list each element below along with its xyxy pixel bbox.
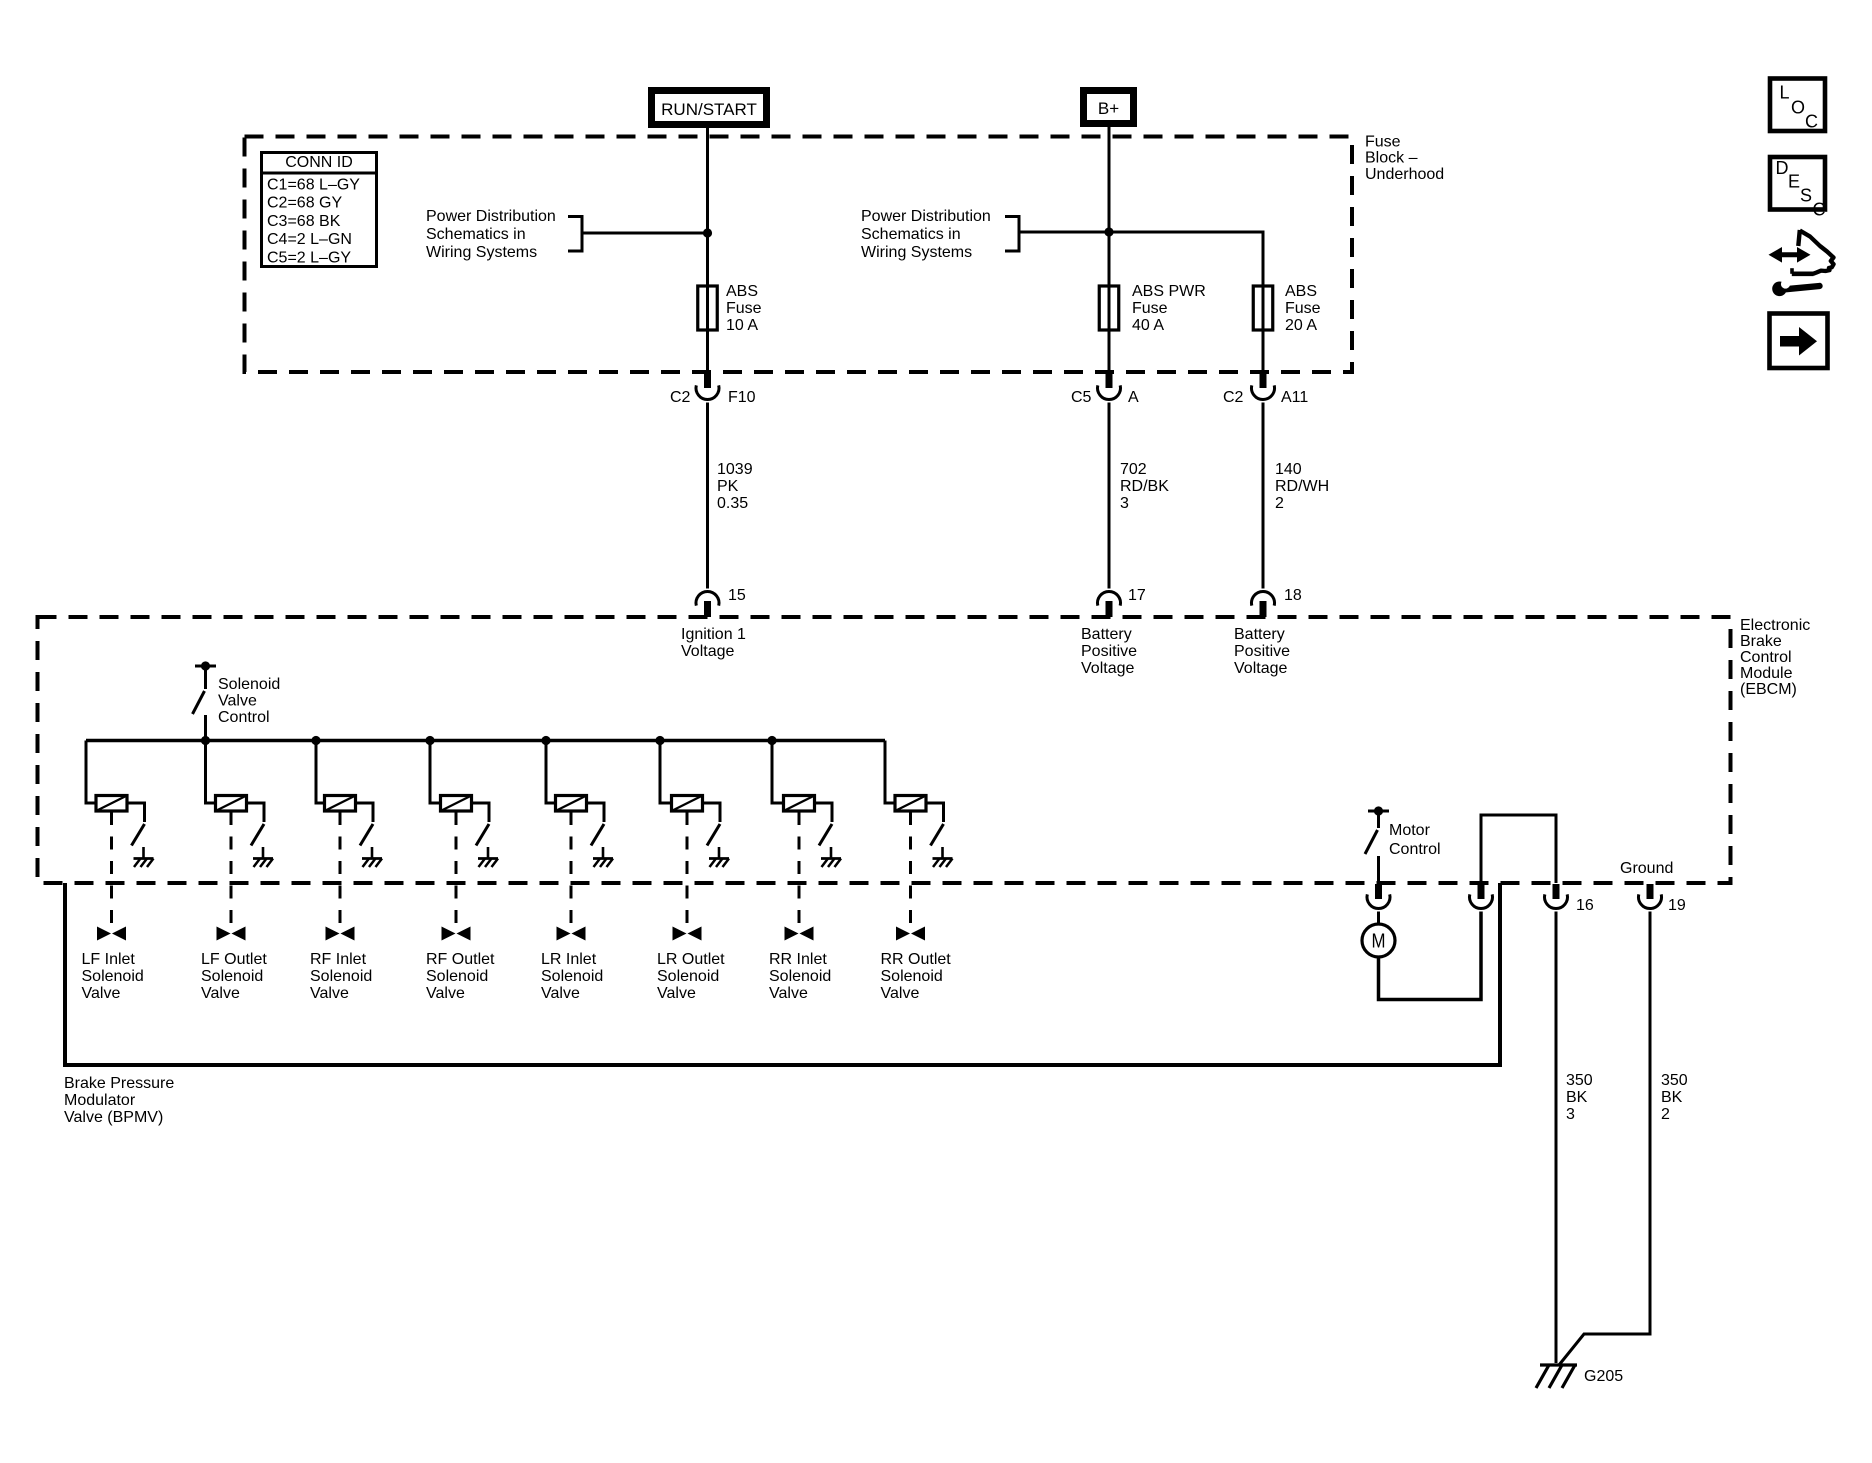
svg-text:C2=68 GY: C2=68 GY	[267, 195, 342, 212]
motor M	[1362, 924, 1395, 957]
label Power Distribution Schematics in Wiring Systems (left)	[426, 208, 556, 261]
svg-text:Positive: Positive	[1234, 643, 1290, 660]
wire from right reference across B+ feed to ABS fuse 20A	[1019, 232, 1263, 286]
icon vehicle data link (car with double arrow and wrench)	[1769, 230, 1834, 296]
label Fuse Block - Underhood	[1365, 134, 1444, 184]
wire coil to driver switch (LR Outlet)	[703, 803, 721, 822]
svg-text:A11: A11	[1281, 389, 1308, 406]
dashed actuation link to RR Inlet valve	[798, 812, 801, 926]
solenoid valve control switch	[193, 666, 206, 740]
driver switch (RF Outlet)	[476, 824, 489, 858]
label ABS Fuse 10 A	[726, 283, 762, 334]
wire bus to RR Outlet solenoid coil	[885, 741, 895, 804]
label LR Inlet Solenoid Valve	[541, 951, 603, 1002]
junction bus to RF Outlet branch	[425, 736, 434, 745]
svg-text:Solenoid: Solenoid	[541, 968, 603, 985]
dashed actuation link to LF Inlet valve	[110, 812, 113, 926]
label RR Outlet Solenoid Valve	[881, 951, 952, 1002]
svg-text:(EBCM): (EBCM)	[1740, 681, 1797, 698]
label 350 BK 2	[1661, 1072, 1688, 1123]
wire 702 RD/BK 3	[1108, 403, 1111, 589]
dashed actuation link to LR Inlet valve	[570, 812, 573, 926]
svg-text:Valve: Valve	[82, 985, 121, 1002]
svg-text:Power Distribution: Power Distribution	[861, 208, 991, 225]
svg-text:Solenoid: Solenoid	[310, 968, 372, 985]
wire fuse 40A to connector C5 A	[1108, 330, 1111, 372]
svg-text:S: S	[1800, 186, 1812, 206]
svg-text:Valve: Valve	[881, 985, 920, 1002]
driver switch (LF Outlet)	[251, 824, 264, 858]
svg-text:LR Inlet: LR Inlet	[541, 951, 597, 968]
driver switch (RF Inlet)	[360, 824, 373, 858]
svg-text:BK: BK	[1566, 1089, 1588, 1106]
CONN ID table	[260, 153, 378, 267]
svg-text:Fuse: Fuse	[1285, 300, 1321, 317]
svg-text:Valve: Valve	[541, 985, 580, 1002]
svg-text:M: M	[1372, 931, 1386, 953]
svg-text:G205: G205	[1584, 1368, 1623, 1385]
wire fuse 20A to connector C2 A11	[1262, 330, 1265, 372]
svg-text:16: 16	[1576, 897, 1594, 914]
label 702 RD/BK 3	[1120, 461, 1169, 512]
svg-text:C5: C5	[1071, 389, 1092, 406]
label Solenoid Valve Control	[218, 676, 280, 726]
label Power Distribution Schematics in Wiring Systems (right)	[861, 208, 991, 261]
svg-text:17: 17	[1128, 587, 1146, 604]
svg-text:RD/BK: RD/BK	[1120, 478, 1169, 495]
node RUN/START	[652, 91, 767, 125]
ground G205	[1536, 1365, 1577, 1388]
ground (driver RR Inlet)	[821, 859, 841, 868]
valve LF Inlet solenoid valve	[97, 927, 126, 941]
label Motor Control	[1389, 822, 1441, 858]
junction bus to RF Inlet branch	[311, 736, 320, 745]
svg-text:C1=68 L–GY: C1=68 L–GY	[267, 177, 360, 194]
label Battery Positive Voltage (pin 17)	[1081, 626, 1137, 677]
svg-text:Voltage: Voltage	[1081, 660, 1134, 677]
svg-text:40 A: 40 A	[1132, 317, 1164, 334]
motor control switch	[1365, 811, 1379, 883]
wire bus to RF Inlet solenoid coil	[316, 741, 325, 804]
solenoid valve control supply tap	[195, 661, 216, 670]
svg-text:350: 350	[1661, 1072, 1688, 1089]
svg-text:D: D	[1776, 158, 1789, 178]
svg-text:Solenoid: Solenoid	[426, 968, 488, 985]
label ABS PWR Fuse 40 A	[1132, 283, 1206, 334]
svg-text:Block –: Block –	[1365, 150, 1418, 167]
svg-text:Underhood: Underhood	[1365, 166, 1444, 183]
svg-text:Valve: Valve	[310, 985, 349, 1002]
wire coil to driver switch (RR Outlet)	[926, 803, 944, 822]
driver switch (LR Inlet)	[591, 824, 604, 858]
svg-text:RF Inlet: RF Inlet	[310, 951, 367, 968]
driver switch (LF Inlet)	[132, 824, 145, 858]
svg-text:ABS: ABS	[726, 283, 758, 300]
svg-text:Fuse: Fuse	[1365, 134, 1401, 151]
svg-text:10 A: 10 A	[726, 317, 758, 334]
ground (driver LF Outlet)	[253, 859, 273, 868]
motor return connector at module bottom	[1470, 884, 1493, 909]
wire bus to LR Inlet solenoid coil	[546, 741, 556, 804]
svg-text:Control: Control	[218, 709, 270, 726]
wire 350 BK 2 from pin 19 to G205	[1559, 912, 1650, 1366]
driver switch (LR Outlet)	[707, 824, 720, 858]
wire connector to motor	[1377, 912, 1380, 925]
svg-text:Brake: Brake	[1740, 633, 1782, 650]
svg-text:RR Inlet: RR Inlet	[769, 951, 827, 968]
svg-text:Voltage: Voltage	[1234, 660, 1287, 677]
svg-text:Solenoid: Solenoid	[769, 968, 831, 985]
svg-text:Wiring Systems: Wiring Systems	[426, 244, 537, 261]
wire RUN/START down to ABS fuse	[706, 128, 709, 286]
label RF Outlet Solenoid Valve	[426, 951, 495, 1002]
label Battery Positive Voltage (pin 18)	[1234, 626, 1290, 677]
svg-text:C3=68 BK: C3=68 BK	[267, 213, 341, 230]
pin 19 connector	[1639, 884, 1662, 909]
svg-text:Valve: Valve	[201, 985, 240, 1002]
svg-text:L: L	[1780, 83, 1790, 103]
wire fuse 10A to connector C2 F10	[706, 330, 709, 372]
svg-text:Control: Control	[1389, 841, 1441, 858]
dashed actuation link to RR Outlet valve	[909, 812, 912, 926]
svg-text:O: O	[1791, 98, 1805, 118]
svg-text:2: 2	[1275, 495, 1284, 512]
svg-text:Valve: Valve	[218, 693, 257, 710]
valve RR Inlet solenoid valve	[785, 927, 814, 941]
svg-text:ABS: ABS	[1285, 283, 1317, 300]
svg-text:3: 3	[1120, 495, 1129, 512]
label ABS Fuse 20 A	[1285, 283, 1321, 334]
wire inside module from motor return to pin 16	[1481, 815, 1556, 883]
driver switch (RR Inlet)	[819, 824, 832, 858]
svg-text:B+: B+	[1098, 99, 1119, 118]
svg-text:CONN ID: CONN ID	[285, 154, 353, 171]
wire coil to driver switch (RF Inlet)	[356, 803, 374, 822]
wire bus to RR Inlet solenoid coil	[772, 741, 784, 804]
icon LOC box	[1770, 79, 1825, 132]
svg-text:Valve: Valve	[769, 985, 808, 1002]
bracket for right power distribution reference	[1005, 217, 1019, 252]
fuse block underhood dashed enclosure	[245, 137, 1353, 373]
icon forward arrow box	[1770, 314, 1828, 369]
svg-text:C2: C2	[670, 389, 691, 406]
label Electronic Brake Control Module (EBCM)	[1740, 617, 1810, 698]
svg-text:Motor: Motor	[1389, 822, 1431, 839]
solenoid coil RF Outlet	[441, 796, 472, 812]
label RR Inlet Solenoid Valve	[769, 951, 831, 1002]
wire motor return loop	[1379, 912, 1482, 1000]
valve LF Outlet solenoid valve	[217, 927, 246, 941]
svg-text:Schematics in: Schematics in	[426, 226, 526, 243]
solenoid coil RR Outlet	[895, 796, 926, 812]
solenoid coil RR Inlet	[784, 796, 815, 812]
svg-text:LF Inlet: LF Inlet	[82, 951, 136, 968]
svg-text:Fuse: Fuse	[726, 300, 762, 317]
fuse ABS 20 A	[1253, 286, 1273, 330]
junction bus to RR Inlet branch	[767, 736, 776, 745]
svg-text:Fuse: Fuse	[1132, 300, 1168, 317]
ground (driver RF Outlet)	[478, 859, 498, 868]
svg-text:702: 702	[1120, 461, 1147, 478]
fuse ABS 10 A	[698, 286, 718, 330]
svg-text:A: A	[1128, 389, 1139, 406]
dashed actuation link to RF Outlet valve	[455, 812, 458, 926]
icon DESC box	[1770, 157, 1826, 220]
svg-text:Modulator: Modulator	[64, 1092, 136, 1109]
svg-text:C5=2 L–GY: C5=2 L–GY	[267, 250, 351, 267]
junction on B+ feed	[1104, 227, 1113, 236]
junction bus to LR Outlet branch	[655, 736, 664, 745]
pin 18 connector	[1252, 591, 1275, 617]
svg-text:C: C	[1813, 200, 1826, 220]
wire from left reference to RUN/START feed	[582, 232, 708, 235]
dashed actuation link to RF Inlet valve	[339, 812, 342, 926]
dashed actuation link to LR Outlet valve	[686, 812, 689, 926]
svg-text:350: 350	[1566, 1072, 1593, 1089]
connector C2 pin F10	[696, 372, 719, 400]
solenoid supply bus wire	[86, 739, 885, 743]
svg-text:Valve: Valve	[426, 985, 465, 1002]
svg-text:RD/WH: RD/WH	[1275, 478, 1329, 495]
svg-text:Solenoid: Solenoid	[657, 968, 719, 985]
node B+	[1084, 91, 1134, 124]
wire 140 RD/WH 2	[1262, 403, 1265, 589]
wire coil to driver switch (LF Inlet)	[127, 803, 145, 822]
svg-text:3: 3	[1566, 1106, 1575, 1123]
solenoid coil LR Inlet	[556, 796, 587, 812]
svg-text:BK: BK	[1661, 1089, 1683, 1106]
svg-text:Positive: Positive	[1081, 643, 1137, 660]
label 350 BK 3	[1566, 1072, 1593, 1123]
svg-text:F10: F10	[728, 389, 756, 406]
svg-text:0.35: 0.35	[717, 495, 748, 512]
fuse ABS PWR 40 A	[1099, 286, 1119, 330]
connector C2 pin A11	[1252, 372, 1275, 400]
solenoid coil LF Inlet	[96, 796, 127, 812]
valve RF Inlet solenoid valve	[326, 927, 355, 941]
svg-text:RF Outlet: RF Outlet	[426, 951, 495, 968]
svg-text:Module: Module	[1740, 665, 1793, 682]
pin 17 connector	[1098, 591, 1121, 617]
label 1039 PK 0.35	[717, 461, 753, 512]
svg-text:C2: C2	[1223, 389, 1244, 406]
wire B+ down to ABS PWR fuse	[1108, 127, 1111, 286]
svg-text:Valve: Valve	[657, 985, 696, 1002]
ground (driver RF Inlet)	[362, 859, 382, 868]
svg-text:Schematics in: Schematics in	[861, 226, 961, 243]
wire coil to driver switch (RF Outlet)	[472, 803, 490, 822]
svg-text:RR Outlet: RR Outlet	[881, 951, 952, 968]
svg-text:PK: PK	[717, 478, 739, 495]
ground (driver LR Inlet)	[593, 859, 613, 868]
svg-text:Ignition 1: Ignition 1	[681, 626, 746, 643]
driver switch (RR Outlet)	[931, 824, 944, 858]
wire bus to LF Inlet solenoid coil	[86, 741, 96, 804]
wire 1039 PK 0.35	[706, 403, 709, 589]
svg-text:Control: Control	[1740, 649, 1792, 666]
svg-text:Power Distribution: Power Distribution	[426, 208, 556, 225]
svg-text:Battery: Battery	[1081, 626, 1132, 643]
svg-text:Solenoid: Solenoid	[218, 676, 280, 693]
svg-text:C: C	[1805, 112, 1818, 132]
wire coil to driver switch (LR Inlet)	[587, 803, 605, 822]
wire bus to LF Outlet solenoid coil	[206, 741, 216, 804]
valve LR Outlet solenoid valve	[673, 927, 702, 941]
ground (driver RR Outlet)	[933, 859, 953, 868]
svg-text:20 A: 20 A	[1285, 317, 1317, 334]
wire bus to RF Outlet solenoid coil	[430, 741, 441, 804]
svg-text:Solenoid: Solenoid	[881, 968, 943, 985]
motor supply connector at module bottom	[1367, 884, 1390, 909]
junction on RUN/START feed	[703, 228, 712, 237]
junction bus to LF Outlet branch	[201, 736, 210, 745]
valve RR Outlet solenoid valve	[896, 927, 925, 941]
label 140 RD/WH 2	[1275, 461, 1329, 512]
label Ignition 1 Voltage	[681, 626, 746, 660]
svg-text:Valve (BPMV): Valve (BPMV)	[64, 1109, 163, 1126]
valve LR Inlet solenoid valve	[557, 927, 586, 941]
svg-text:ABS PWR: ABS PWR	[1132, 283, 1206, 300]
wire 350 BK 3 from pin 16 to G205	[1555, 912, 1558, 1364]
wire coil to driver switch (LF Outlet)	[247, 803, 265, 822]
label LF Outlet Solenoid Valve	[201, 951, 267, 1002]
svg-text:1039: 1039	[717, 461, 753, 478]
label LR Outlet Solenoid Valve	[657, 951, 725, 1002]
svg-text:RUN/START: RUN/START	[661, 100, 757, 119]
wire coil to driver switch (RR Inlet)	[815, 803, 833, 822]
svg-text:18: 18	[1284, 587, 1302, 604]
junction bus to LR Inlet branch	[541, 736, 550, 745]
svg-text:E: E	[1788, 172, 1800, 192]
svg-text:LR Outlet: LR Outlet	[657, 951, 725, 968]
ground (driver LF Inlet)	[134, 859, 154, 868]
label LF Inlet Solenoid Valve	[82, 951, 144, 1002]
dashed actuation link to LF Outlet valve	[230, 812, 233, 926]
wire bus to LR Outlet solenoid coil	[660, 741, 672, 804]
solenoid coil LR Outlet	[672, 796, 703, 812]
svg-text:2: 2	[1661, 1106, 1670, 1123]
svg-text:Solenoid: Solenoid	[82, 968, 144, 985]
svg-text:Wiring Systems: Wiring Systems	[861, 244, 972, 261]
svg-text:140: 140	[1275, 461, 1302, 478]
motor control supply tap	[1368, 806, 1389, 815]
svg-text:LF Outlet: LF Outlet	[201, 951, 267, 968]
bracket for left power distribution reference	[568, 217, 582, 252]
BPMV enclosure line	[65, 883, 1500, 1065]
pin 15 connector	[696, 591, 719, 617]
svg-text:C4=2 L–GN: C4=2 L–GN	[267, 231, 352, 248]
svg-text:Voltage: Voltage	[681, 643, 734, 660]
svg-text:Battery: Battery	[1234, 626, 1285, 643]
svg-text:Electronic: Electronic	[1740, 617, 1810, 634]
pin 16 connector	[1545, 884, 1568, 909]
svg-text:Ground: Ground	[1620, 860, 1673, 877]
connector C5 pin A	[1098, 372, 1121, 400]
svg-text:19: 19	[1668, 897, 1686, 914]
label RF Inlet Solenoid Valve	[310, 951, 372, 1002]
EBCM dashed enclosure	[38, 617, 1731, 883]
solenoid coil LF Outlet	[216, 796, 247, 812]
ground (driver LR Outlet)	[709, 859, 729, 868]
solenoid coil RF Inlet	[325, 796, 356, 812]
svg-text:Solenoid: Solenoid	[201, 968, 263, 985]
valve RF Outlet solenoid valve	[442, 927, 471, 941]
svg-text:15: 15	[728, 587, 746, 604]
label Brake Pressure Modulator Valve (BPMV)	[64, 1075, 174, 1126]
svg-text:Brake Pressure: Brake Pressure	[64, 1075, 174, 1092]
